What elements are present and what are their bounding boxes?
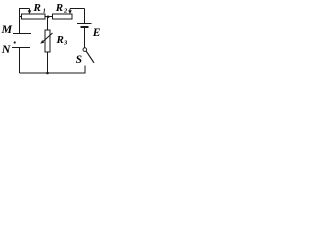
svg-text:1: 1 [43,8,46,15]
svg-text:3: 3 [63,40,68,47]
wire: top right from R2 wiper to right rail [70,9,85,24]
wire: between R1 and R2 [45,16,53,18]
node: junction dot between R1 and R2 [47,15,50,18]
svg-text:S: S [76,54,82,66]
node: junction dot on bottom rail [46,72,49,75]
resistor R3 (box) [45,30,50,52]
wiper arrow onto R1 [28,10,32,14]
wire: N drop to bottom rail [19,48,21,74]
wire: top wiper feed for R1 [19,9,30,12]
svg-text:R: R [55,2,63,14]
terminal M line [13,33,31,35]
svg-text:N: N [1,42,12,56]
switch S blade (open) [86,51,94,63]
resistor R2 (box) [53,14,73,19]
wire: switch contact down to bottom rail [84,66,86,74]
wire: right rail battery to switch [84,28,86,48]
resistor R1 (box) [22,14,46,19]
wire: R3 bottom lead [47,52,49,73]
svg-text:E: E [92,27,101,39]
node dot between M and N [14,41,16,43]
svg-text:R: R [33,2,41,14]
wire: left riser from M line up to wiper feed [19,8,21,34]
wiper arrow onto R2 [69,9,71,12]
wire: stub from riser to R1 left end [20,16,22,18]
switch S pivot [83,48,87,52]
wire: bottom rail [20,72,86,74]
svg-text:M: M [1,22,13,36]
rheostat arrow across R3 [43,33,53,42]
svg-text:R: R [56,34,64,46]
terminal N line [12,47,30,49]
battery E [77,24,92,28]
svg-text:2: 2 [63,7,68,14]
wire: R3 top lead [47,17,49,30]
